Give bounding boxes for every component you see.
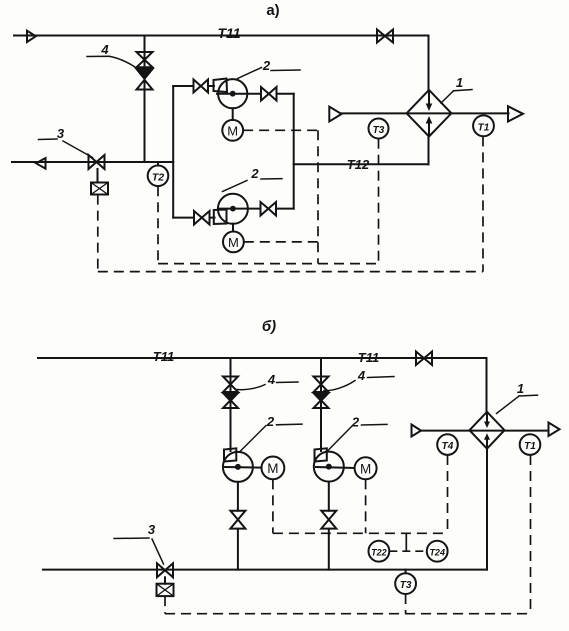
wire: pump group right header (a) [293, 94, 295, 209]
control line from M2 down (b) [365, 479, 367, 533]
wire: supply line T11 (b) [38, 357, 487, 359]
control line from T3 down (b) [405, 594, 407, 614]
svg-text:3: 3 [57, 126, 65, 141]
valve 4 upper branch 2 (b) [314, 377, 329, 385]
wire: branch vertical for valve 4 (a) [144, 36, 146, 163]
svg-text:Т22: Т22 [371, 547, 387, 557]
sensor T3 (a) [369, 119, 389, 139]
control line bus to T4 (b) [273, 532, 448, 534]
wire: supply line T11 (a) [14, 35, 429, 37]
svg-text:Т11: Т11 [153, 349, 174, 364]
motor M of pump 1 (b) [262, 457, 285, 480]
wire: return line (a) [12, 161, 173, 163]
flow arrow right on supply line (a) [27, 31, 36, 42]
sensor T24 (b) [427, 541, 448, 562]
svg-text:М: М [360, 462, 371, 477]
flow arrow inlet (b) [412, 425, 422, 437]
svg-text:2: 2 [262, 58, 271, 73]
valve 4 lower (a) [137, 69, 153, 79]
svg-text:М: М [227, 123, 238, 138]
actuator of valve 3 (b) [164, 577, 166, 583]
control line M vertical (a) [317, 130, 319, 263]
heat exchanger U1 (a) [407, 90, 452, 137]
control line junction to T22 T24 (b) [405, 533, 407, 551]
svg-text:Т3: Т3 [373, 125, 385, 136]
valve at pump 2 outlet (a) [261, 202, 269, 216]
wire: supply drop to heat exchanger (a) [428, 36, 430, 91]
valve 4 upper branch 1 (b) [223, 377, 238, 385]
valve on supply line (a) [377, 30, 385, 43]
svg-text:Т11: Т11 [217, 25, 240, 41]
wire: pump 1 inlet (a) [173, 85, 193, 87]
svg-text:б): б) [262, 318, 276, 335]
control line from M1 down (b) [272, 479, 274, 533]
svg-text:Т4: Т4 [442, 441, 454, 452]
svg-text:Т1: Т1 [524, 441, 536, 452]
wire: supply drop to heat exchanger (b) [486, 358, 488, 412]
flow arrow inlet (a) [329, 107, 341, 122]
pump 1 (b) [224, 448, 236, 461]
sensor T2 (a) [157, 162, 159, 166]
motor M of pump 2 (b) [355, 457, 377, 479]
svg-text:М: М [228, 235, 239, 250]
wire: heat exchanger bottom riser (b) [486, 449, 488, 570]
control line outer bus (a) [98, 271, 483, 273]
valve below pump 2 (b) [321, 511, 336, 520]
pump 1 (a) [214, 79, 228, 93]
svg-text:2: 2 [351, 414, 360, 429]
svg-text:Т3: Т3 [400, 580, 412, 591]
flow arrow left on return line (a) [36, 158, 46, 169]
control line from T1 down (a) [482, 136, 484, 271]
wire: pump group left header (a) [172, 86, 174, 218]
wire: pump branch 1 drop (b) [230, 358, 232, 451]
wire: heat exchanger main line (a) [341, 112, 509, 114]
svg-text:Т2: Т2 [152, 172, 164, 184]
wire: pump branch 2 drop (b) [320, 358, 322, 451]
valve 3 (b) [157, 563, 165, 577]
wire: pump 2 down leg (b) [328, 482, 330, 511]
valve 4 upper (a) [137, 52, 153, 60]
motor M of pump 2 (a) [232, 224, 234, 232]
heat exchanger U1 (b) [470, 412, 505, 449]
svg-text:Т1: Т1 [478, 123, 490, 134]
svg-text:2: 2 [266, 414, 275, 429]
control line from T3 down (a) [378, 139, 380, 264]
svg-text:4: 4 [267, 372, 276, 387]
sensor T22 (b) [369, 541, 390, 562]
label 1 with leader (a) [441, 91, 454, 103]
control line from T2 down (a) [157, 186, 159, 263]
svg-text:Т12: Т12 [347, 157, 370, 172]
valve below pump 1 (b) [230, 511, 245, 520]
motor M of pump 1 (a) [232, 108, 234, 120]
svg-text:4: 4 [357, 368, 366, 383]
valve 4 lower branch 2 (b) [314, 393, 329, 401]
valve 4 lower branch 1 (b) [223, 393, 238, 401]
svg-text:а): а) [266, 2, 279, 19]
flow arrow outlet (b) [549, 423, 560, 437]
pump 2 (a) [214, 210, 227, 225]
wire: heat exchanger bottom drop (a) [428, 137, 430, 165]
pump 2 (b) [315, 448, 327, 461]
svg-text:1: 1 [456, 75, 463, 90]
svg-text:3: 3 [148, 522, 156, 537]
wire: return line (b) [43, 569, 487, 571]
flow arrow outlet (a) [508, 106, 523, 121]
sensor T3 (b) [405, 570, 407, 574]
svg-text:Т11: Т11 [358, 350, 379, 365]
valve 3 (a) [89, 155, 97, 169]
svg-text:1: 1 [517, 381, 524, 396]
wire: heat exchanger main line (b) [421, 430, 549, 432]
label 1 with leader (b) [497, 396, 520, 414]
wire: T12 line to heat exchanger (a) [294, 163, 429, 165]
actuator of valve 3 (a) [97, 169, 99, 183]
svg-text:4: 4 [100, 42, 109, 57]
wire: pump 1 down leg (b) [237, 482, 239, 511]
control line from valve 3 actuator down (a) [97, 195, 99, 272]
control line from T1 down (b) [530, 455, 532, 614]
valve on supply line (b) [416, 352, 424, 366]
sensor T1 (a) [473, 115, 494, 136]
control line from valve 3 actuator down (b) [164, 596, 166, 614]
sensor T1 (b) [520, 434, 541, 455]
valve at pump 1 outlet (a) [261, 87, 269, 101]
control line from T4 down (b) [447, 455, 449, 533]
valve at pump 2 inlet (a) [194, 211, 202, 225]
svg-text:Т24: Т24 [429, 547, 445, 557]
svg-text:2: 2 [250, 166, 259, 181]
wire: pump 2 inlet (a) [173, 217, 194, 219]
control line inner bus (a) [158, 263, 379, 265]
valve at pump 1 inlet (a) [194, 80, 201, 93]
control line from M2 (a) [244, 241, 318, 243]
svg-text:М: М [267, 461, 278, 476]
control line outer bus (b) [165, 613, 531, 615]
control line from M1 (a) [243, 129, 318, 131]
sensor T4 (b) [437, 434, 458, 455]
